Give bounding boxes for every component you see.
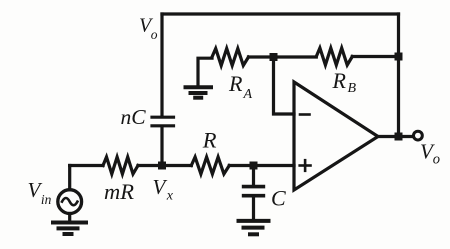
node right vertical / RB junction dot (395, 53, 403, 61)
wire right vertical (top wire to output) (397, 14, 400, 137)
svg-text:R: R (332, 68, 347, 93)
wire mR to Vx node (138, 164, 162, 167)
terminal Vo circle (414, 131, 423, 140)
svg-text:R: R (228, 71, 243, 96)
wire Vin to mR (70, 164, 103, 167)
svg-text:R: R (202, 127, 217, 152)
label Vo output (420, 139, 440, 167)
svg-text:in: in (41, 192, 52, 207)
op-amp U1 triangle (294, 82, 378, 190)
capacitor nC (152, 117, 174, 126)
wire node C down to capacitor C (252, 166, 255, 185)
op-amp minus symbol (300, 113, 310, 116)
label RB (332, 68, 357, 96)
label RA (228, 71, 253, 102)
svg-text:x: x (166, 188, 174, 203)
svg-text:C: C (271, 185, 286, 210)
svg-text:A: A (243, 87, 253, 102)
svg-text:o: o (151, 27, 158, 42)
source Vin circle (58, 190, 82, 214)
svg-text:B: B (348, 81, 357, 96)
label Vin (28, 178, 52, 207)
wire nC to Vx node (160, 128, 163, 166)
wire op-amp output (378, 135, 413, 138)
resistor RA (212, 49, 249, 66)
wire top horizontal (162, 12, 399, 15)
resistor mR (103, 157, 138, 174)
ground below RA (186, 87, 212, 97)
wire node to RB (274, 55, 317, 58)
wire R to node C (229, 164, 253, 167)
label Vo top (139, 14, 158, 42)
wire RA to node (249, 55, 274, 58)
op-amp plus symbol (300, 160, 311, 171)
capacitor C (244, 187, 264, 196)
node output junction dot (395, 133, 403, 141)
wire Vin circle to ground (68, 214, 71, 221)
ground below Vin (53, 223, 86, 235)
label Vx (153, 175, 174, 203)
wire Vin source stem (68, 166, 71, 190)
resistor RB (316, 48, 352, 65)
wire RB to right vertical (352, 55, 398, 58)
node C junction dot (250, 162, 258, 170)
svg-text:V: V (153, 175, 168, 199)
wire RA ground riser (198, 58, 212, 85)
node RA/RB junction dot (270, 53, 278, 61)
wire node C to op-amp + input (254, 164, 295, 167)
node Vx junction dot (158, 162, 166, 170)
sine wave inside Vin (62, 198, 77, 205)
svg-text:nC: nC (121, 105, 147, 129)
ground below C (239, 221, 269, 234)
svg-text:o: o (433, 152, 440, 168)
wire C to ground (252, 198, 255, 219)
wire Vx to R (162, 164, 191, 167)
svg-text:mR: mR (104, 179, 134, 204)
wire left vertical upper (top wire to nC) (160, 14, 163, 116)
resistor R (191, 157, 229, 174)
wire inverting input drop (274, 57, 295, 114)
